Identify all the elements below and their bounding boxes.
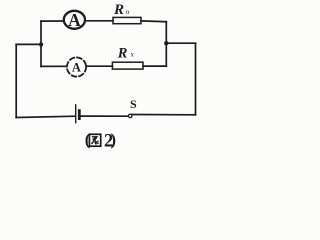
resistor R0 bbox=[113, 17, 141, 23]
wire: branch 2 left (bus to ammeter A2) bbox=[41, 65, 67, 67]
label Rx bbox=[117, 46, 135, 62]
wire: ammeter A1 to resistor R0 bbox=[85, 20, 113, 22]
wire: right outer rail (up) bbox=[195, 43, 197, 115]
caption (图 2) bbox=[85, 130, 116, 151]
wire: top branch left (corner to ammeter A1) bbox=[41, 20, 64, 22]
svg-text:x: x bbox=[131, 51, 135, 59]
ammeter A2 (dashed) bbox=[67, 57, 86, 76]
caption hanzi TU (figure) bbox=[89, 134, 100, 146]
label R0 bbox=[113, 2, 130, 18]
switch S bbox=[128, 114, 195, 118]
node B bbox=[164, 41, 168, 45]
ammeter A1 bbox=[64, 10, 85, 30]
wire: bottom rail left (corner to battery) bbox=[16, 116, 75, 117]
resistor Rx bbox=[112, 62, 143, 69]
svg-text:A: A bbox=[68, 10, 81, 30]
svg-text:A: A bbox=[72, 60, 81, 74]
wire: left bus upper segment (node A up to top branch corner) bbox=[40, 21, 42, 44]
wire: resistor R0 to right bus corner bbox=[141, 20, 166, 23]
wire: left bus lower segment (node A down to branch 2) bbox=[40, 44, 42, 66]
wire: node A to left outer rail bbox=[16, 43, 41, 45]
wire: battery to switch bbox=[81, 115, 129, 117]
svg-text:R: R bbox=[117, 46, 128, 62]
wire: right bus upper (corner down to node B) bbox=[165, 22, 167, 44]
wire: right bus lower (node B to branch 2) bbox=[165, 43, 167, 66]
wire: left outer rail (down) bbox=[15, 44, 17, 117]
battery cell bbox=[76, 105, 80, 123]
wire: right outer rail top (to node B) bbox=[166, 42, 195, 44]
node A bbox=[39, 42, 43, 46]
svg-text:o: o bbox=[126, 7, 130, 16]
wire: ammeter A2 to resistor Rx bbox=[86, 65, 112, 67]
wire: resistor Rx to right bus bbox=[143, 65, 166, 67]
svg-text:R: R bbox=[113, 2, 124, 18]
svg-text:S: S bbox=[130, 97, 137, 111]
svg-text:): ) bbox=[111, 130, 117, 149]
